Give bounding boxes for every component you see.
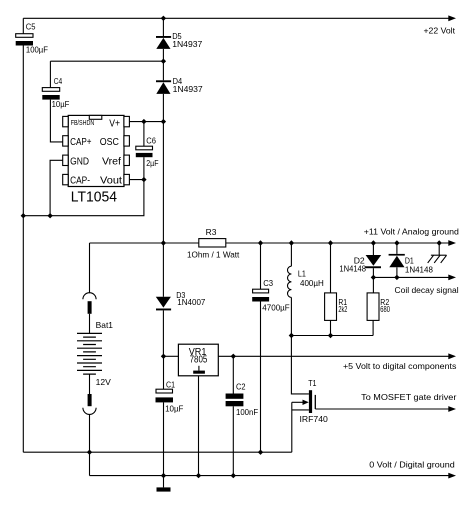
node V+ / C6 — [141, 119, 146, 124]
svg-text:+11 Volt / Analog ground: +11 Volt / Analog ground — [364, 226, 459, 236]
inductor L1 — [287, 266, 291, 297]
ground analog — [428, 255, 447, 263]
pin 7 OSC — [124, 136, 129, 146]
wire C2 top — [232, 356, 234, 393]
svg-text:CAP+: CAP+ — [70, 137, 92, 148]
node top rail / D5 — [161, 16, 166, 21]
diode D2 — [365, 255, 381, 268]
svg-text:10µF: 10µF — [165, 404, 183, 414]
svg-text:GND: GND — [70, 156, 89, 167]
node V+ / D4 rail — [161, 119, 166, 124]
capacitor C5 — [16, 34, 33, 46]
wire T1 source — [291, 402, 293, 452]
wire battery top to +11V rail — [89, 243, 91, 293]
svg-text:C5: C5 — [26, 21, 36, 31]
wire V+ to D4 — [129, 121, 163, 123]
wire D1 top — [396, 243, 398, 254]
pin 5 Vout — [124, 174, 129, 184]
wire battery bottom — [89, 374, 91, 394]
node GND branch — [47, 213, 52, 218]
capacitor C2 — [226, 394, 244, 407]
svg-text:10µF: 10µF — [52, 99, 70, 109]
svg-text:Vout: Vout — [100, 176, 122, 187]
resistor R2 — [367, 293, 379, 321]
wire D4 to V+ node — [162, 94, 164, 122]
svg-text:CAP-: CAP- — [70, 176, 90, 187]
arrow +22 Volt — [448, 15, 456, 21]
node +11V / D2 — [371, 240, 376, 245]
svg-text:C4: C4 — [54, 76, 63, 86]
svg-text:100nF: 100nF — [236, 407, 258, 417]
pin 6 Vref — [124, 155, 129, 165]
svg-text:7805: 7805 — [190, 354, 208, 365]
svg-text:+5 Volt to digital components: +5 Volt to digital components — [343, 361, 457, 371]
wire R1 bottom — [330, 320, 332, 335]
svg-text:Coil decay signal: Coil decay signal — [395, 285, 459, 295]
capacitor C4 — [42, 88, 59, 100]
wire analog ground stem — [438, 243, 440, 255]
wire 0V bus — [90, 475, 449, 477]
wire R2 bottom — [372, 320, 374, 335]
node +11V / analog ground — [437, 240, 442, 245]
svg-text:C3: C3 — [263, 278, 273, 288]
node 0V / VR1 ground — [196, 473, 201, 478]
svg-text:100µF: 100µF — [26, 45, 48, 55]
node +11V / D1 — [394, 240, 399, 245]
wire Vout loop — [23, 180, 144, 216]
node 0V / C1 ground — [161, 473, 166, 478]
svg-text:LT1054: LT1054 — [71, 189, 117, 206]
svg-text:C1: C1 — [166, 380, 175, 390]
node +11V / rail — [161, 240, 166, 245]
wire C1 top — [163, 356, 165, 389]
wire D5 to D4 — [162, 49, 164, 80]
capacitor C1 — [156, 389, 174, 402]
svg-text:T1: T1 — [308, 378, 316, 388]
node +5V / C2 — [231, 354, 236, 359]
svg-text:Vref: Vref — [102, 156, 121, 167]
node L1 bottom / drain — [289, 333, 294, 338]
svg-text:400µH: 400µH — [300, 278, 324, 288]
arrow +5 Volt — [448, 353, 456, 359]
svg-text:1N4937: 1N4937 — [172, 39, 202, 49]
arrow +11 Volt — [448, 240, 456, 246]
node Vout / C6 — [141, 177, 146, 182]
svg-text:680: 680 — [380, 304, 390, 314]
wire coil decay signal — [373, 276, 448, 278]
arrow 0 Volt — [448, 473, 456, 479]
svg-text:2k2: 2k2 — [338, 304, 347, 314]
node D5-D4 / C4 — [161, 59, 166, 64]
wire C2 bottom — [232, 406, 234, 475]
svg-text:1N4007: 1N4007 — [177, 297, 205, 307]
pin 1 FB/SHDN — [63, 116, 68, 126]
svg-text:R3: R3 — [206, 227, 217, 237]
arrow to MOSFET gate driver — [448, 406, 456, 412]
wire +22V top rail — [23, 17, 448, 19]
wire ground symbol stem — [163, 476, 165, 488]
svg-text:FB/SHDN: FB/SHDN — [71, 118, 95, 127]
wire T1 gate — [315, 408, 448, 410]
transistor T1 IRF740 — [292, 390, 316, 413]
op-amp U1 LT1054 body — [68, 115, 124, 186]
diode D3 — [156, 297, 171, 311]
svg-text:2µF: 2µF — [146, 158, 158, 168]
node upper ground / C3 — [258, 450, 263, 455]
svg-text:12V: 12V — [96, 377, 112, 387]
wire VR1 input — [164, 355, 179, 357]
capacitor C3 — [252, 289, 269, 301]
wire C4 top — [49, 61, 51, 87]
wire R1 top — [330, 243, 332, 293]
diode D1 — [389, 254, 405, 267]
pin 3 GND — [63, 155, 68, 165]
regulator VR1 7805 — [178, 344, 218, 376]
diode D4 — [156, 80, 171, 94]
diode D5 — [156, 36, 171, 49]
pin 4 CAP- — [63, 174, 68, 184]
wire C6 bottom — [143, 157, 145, 179]
battery Bat1 — [77, 333, 102, 374]
wire C3 top — [260, 243, 262, 289]
wire +5V output — [218, 355, 448, 357]
svg-text:C6: C6 — [146, 135, 156, 145]
node left rail / Vout loop — [21, 213, 26, 218]
wire D2 top — [372, 243, 374, 255]
connector top Bat1 — [83, 293, 96, 314]
wire L1 bottom — [290, 297, 292, 335]
wire upper ground bus — [23, 451, 292, 453]
wire D3 to VR1 input — [162, 310, 164, 356]
wire C1 bottom — [163, 402, 165, 475]
svg-text:IRF740: IRF740 — [300, 414, 328, 424]
wire L1 top — [290, 243, 292, 266]
svg-text:V+: V+ — [109, 118, 120, 129]
wire rail to D3 — [162, 243, 164, 297]
svg-text:0 Volt / Digital ground: 0 Volt / Digital ground — [369, 460, 455, 470]
wire rail V+ to +11V node — [162, 122, 164, 243]
wire connector to battery — [89, 314, 91, 334]
wire C4 to CAP+ pin — [50, 100, 62, 142]
svg-text:To MOSFET gate driver: To MOSFET gate driver — [361, 392, 456, 402]
wire GND pin branch — [50, 160, 63, 215]
wire battery to ground rails — [89, 414, 91, 475]
wire T1 drain — [291, 336, 309, 394]
wire node L1-R1-R2 bottom — [291, 335, 373, 337]
svg-text:OSC: OSC — [100, 137, 119, 148]
node 0V / C2 — [231, 473, 236, 478]
svg-text:Bat1: Bat1 — [96, 320, 114, 330]
node coil decay / D2-R2 — [371, 275, 376, 280]
resistor R1 — [325, 293, 337, 321]
wire left rail top — [22, 18, 24, 33]
wire C3 bottom — [260, 302, 262, 453]
wire D2 to R2 — [372, 268, 374, 293]
arrow coil decay signal — [448, 275, 456, 281]
node +11V / C3 — [258, 240, 263, 245]
wire +11V left segment — [90, 242, 199, 244]
svg-text:4700µF: 4700µF — [262, 303, 289, 313]
connector bottom Bat1 — [83, 394, 96, 414]
node R1 bottom — [328, 333, 333, 338]
pin 8 V+ — [124, 116, 129, 126]
resistor R3 — [199, 239, 226, 247]
wire D5-D4 to C4 branch — [50, 60, 163, 62]
svg-text:1N4148: 1N4148 — [405, 264, 433, 274]
wire +11V right segment — [226, 242, 449, 244]
svg-text:C2: C2 — [236, 381, 246, 391]
svg-text:1Ohm / 1 Watt: 1Ohm / 1 Watt — [187, 250, 240, 260]
node VR1 input / C1 — [161, 354, 166, 359]
ground digital — [157, 487, 171, 491]
svg-text:1N4148: 1N4148 — [339, 264, 366, 274]
wire rail above D5 — [162, 18, 164, 36]
node +11V / L1 — [289, 240, 294, 245]
notch LT1054 — [89, 115, 102, 119]
wire left rail — [22, 46, 24, 453]
pin 2 CAP+ — [63, 136, 68, 146]
node +11V / R1 — [328, 240, 333, 245]
wire C6 top — [143, 122, 145, 147]
svg-text:1N4937: 1N4937 — [173, 84, 203, 94]
node upper ground / battery — [87, 450, 92, 455]
svg-text:+22 Volt: +22 Volt — [424, 26, 456, 36]
capacitor C6 — [136, 146, 153, 157]
wire VR1 ground pin — [198, 376, 200, 476]
wire D1 bottom — [396, 267, 398, 277]
node coil decay / D1 — [394, 275, 399, 280]
